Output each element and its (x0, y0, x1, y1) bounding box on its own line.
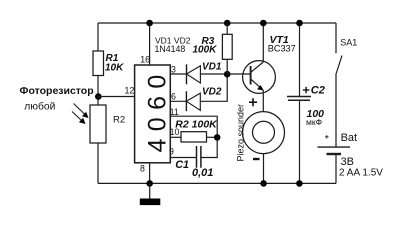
svg-text:0,01: 0,01 (192, 167, 213, 179)
svg-text:6: 6 (171, 92, 176, 102)
wire emitter to piezo (262, 90, 264, 112)
wire left rail upper (97, 23, 99, 51)
capacitor C2 (287, 96, 311, 98)
photoresistor R2 (90, 105, 106, 143)
svg-text:10K: 10K (105, 63, 124, 74)
svg-text:BC337: BC337 (268, 43, 296, 53)
wire pin 12 (98, 96, 135, 98)
svg-text:100K: 100K (193, 44, 218, 55)
capacitor C1 (196, 146, 198, 168)
svg-text:R2 100K: R2 100K (175, 118, 218, 130)
wire R1 bottom (97, 76, 99, 97)
node B (214, 134, 221, 141)
wire R3 top (226, 23, 228, 34)
label minus piezo (253, 158, 260, 160)
wire pin 6 (170, 100, 186, 102)
node pin8 bottom rail (146, 180, 153, 187)
svg-text:16: 16 (140, 54, 150, 64)
svg-text:3: 3 (171, 64, 176, 74)
label plus C2 (303, 87, 309, 93)
op-amp U1 4060 IC body (135, 65, 171, 163)
svg-text:VD1: VD1 (202, 61, 222, 72)
wire pin 11 (170, 116, 217, 137)
diode VD1 (186, 64, 188, 84)
wire VD2 to node A (200, 74, 227, 101)
wire R3 bottom (226, 59, 228, 74)
node photoresistor junction (95, 93, 102, 100)
node collector top rail (260, 20, 267, 27)
label plus battery (325, 135, 329, 139)
wire C2 bottom (299, 100, 301, 183)
svg-text:VD2: VD2 (202, 87, 222, 98)
svg-text:8: 8 (140, 164, 145, 174)
resistor R3 (222, 34, 232, 59)
node A diode junction (224, 71, 231, 78)
node R3 top rail (224, 20, 231, 27)
node pin16 top rail (146, 20, 153, 27)
label plus piezo (249, 98, 257, 106)
wire pin 9 (170, 157, 196, 159)
wire VD1 to node A (200, 73, 227, 75)
svg-text:C1: C1 (175, 159, 189, 171)
svg-text:SA1: SA1 (340, 38, 357, 48)
svg-text:Bat: Bat (341, 132, 358, 144)
wire bottom rail (98, 182, 336, 184)
svg-text:2 AA 1.5V: 2 AA 1.5V (339, 167, 383, 178)
wire R2 to node B (207, 136, 217, 138)
wire node A to base (227, 73, 250, 75)
svg-text:12: 12 (125, 86, 135, 96)
node C2 top rail (296, 20, 303, 27)
wire pin 8 (149, 163, 151, 184)
wire pin 16 (149, 23, 151, 65)
svg-text:3B: 3B (341, 156, 354, 168)
wire battery to bottom rail (335, 154, 337, 183)
svg-text:Фоторезистор: Фоторезистор (20, 85, 94, 97)
svg-text:4060: 4060 (144, 67, 172, 152)
svg-text:любой: любой (24, 100, 55, 112)
svg-text:C2: C2 (311, 84, 325, 96)
resistor R1 (93, 51, 104, 76)
node C2 bottom rail (296, 180, 303, 187)
svg-text:Piezo sounder: Piezo sounder (235, 104, 245, 162)
wire top rail (98, 22, 336, 24)
transistor Q1 VT1 (243, 61, 276, 94)
battery Bat (318, 146, 351, 148)
node piezo bottom rail (260, 180, 267, 187)
wire piezo to bottom rail (263, 154, 265, 184)
svg-text:1N4148: 1N4148 (155, 44, 186, 54)
wire node B down to C1 (201, 137, 217, 157)
switch SA1 (335, 23, 337, 53)
resistor R2 timing 100K (181, 132, 207, 142)
photoresistor light arrows (72, 104, 89, 125)
wire pin 10 (170, 136, 181, 138)
wire collector (262, 23, 264, 62)
svg-text:мкФ: мкФ (306, 117, 322, 127)
wire node to photoresistor (97, 97, 99, 106)
svg-text:R2: R2 (113, 114, 125, 125)
wire photoresistor to bottom rail (97, 143, 99, 183)
diode VD2 (185, 91, 187, 111)
ground (149, 183, 151, 198)
wire C2 top (299, 23, 301, 97)
wire pin 3 (170, 73, 186, 75)
piezo sounder (243, 112, 285, 154)
